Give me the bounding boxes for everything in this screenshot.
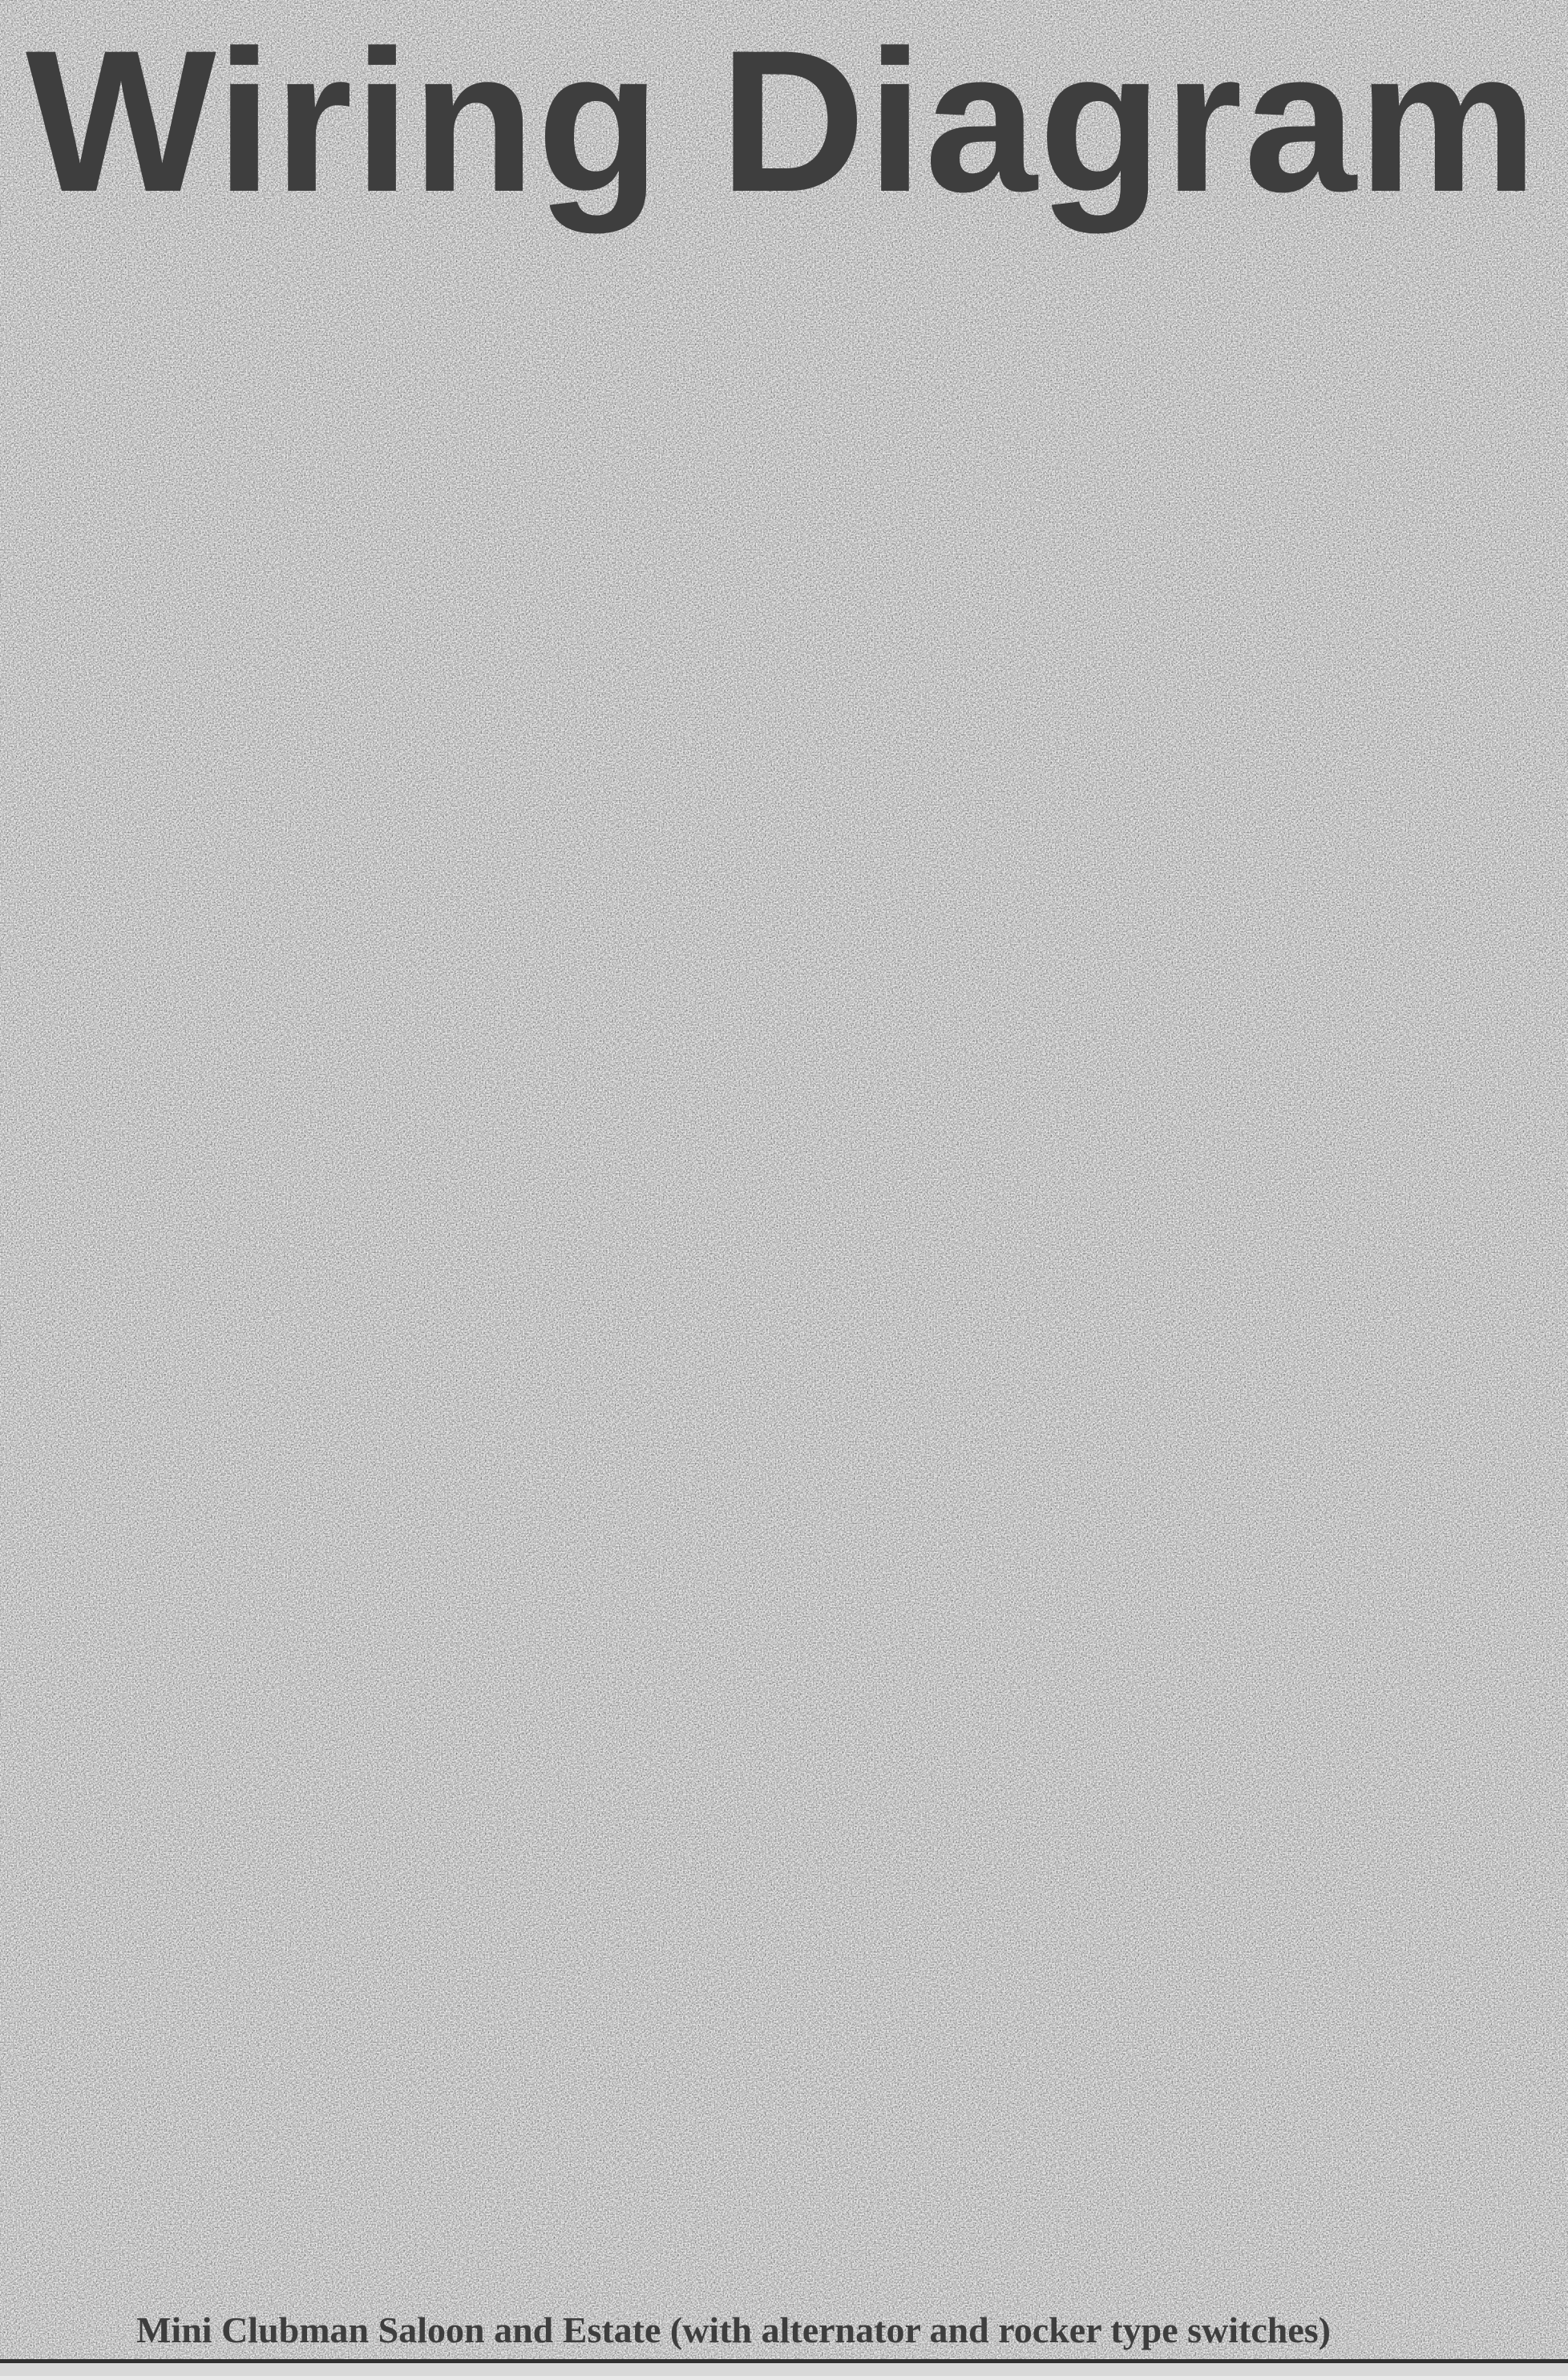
svg-text:Wiring Diagram: Wiring Diagram bbox=[26, 9, 1539, 234]
svg-text:Mini Clubman Saloon and Estate: Mini Clubman Saloon and Estate (with alt… bbox=[136, 2309, 1331, 2350]
